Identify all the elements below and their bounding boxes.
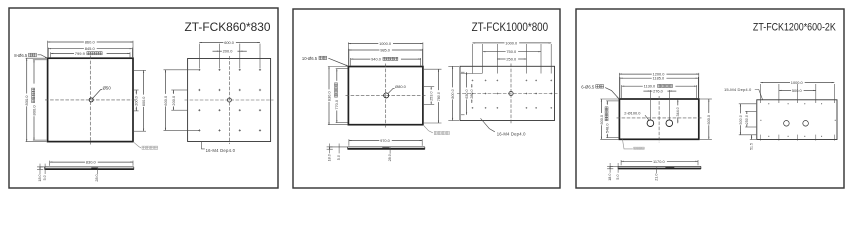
panel 3 dim 1170.0 bottom (620, 160, 622, 165)
panel 2 back dim 750.0 (483, 49, 541, 54)
panel 3 back dim 1000.0 (759, 84, 761, 103)
svg-text:28.0: 28.0 (95, 174, 99, 181)
svg-text:250.0: 250.0 (506, 56, 517, 61)
svg-text:800.0: 800.0 (451, 89, 455, 98)
svg-text:51.5: 51.5 (750, 143, 754, 150)
panel 2 side dim 28.0 (389, 149, 391, 153)
panel 3 back dim 500.0 left (739, 103, 756, 105)
svg-text:250.0: 250.0 (745, 115, 749, 124)
svg-text:830.0: 830.0 (326, 90, 331, 101)
panel 2 wire outlet label (423, 125, 433, 133)
panel 2 dim 780.0 right (437, 69, 441, 123)
svg-text:860.0: 860.0 (85, 39, 96, 44)
panel 2 dim 940.0 luminous (350, 58, 352, 66)
panel 2 back view hole dots (472, 80, 552, 109)
panel 2 side view strip (348, 146, 425, 148)
panel 1 back view M4 hole grid (198, 69, 261, 132)
panel 1 back view center circle (227, 98, 231, 102)
panel 3 front view outline 1200x600 (619, 99, 698, 139)
svg-text:10-Ø6.5: 10-Ø6.5 (302, 56, 318, 61)
svg-text:344.0: 344.0 (676, 107, 680, 116)
panel 2 back corner ext line (461, 73, 482, 75)
panel 2 border frame (293, 9, 560, 188)
panel 3 back dim 250.0 left (745, 110, 756, 112)
panel 1 side view wire bump (91, 168, 98, 170)
svg-text:8-Ø6.5: 8-Ø6.5 (14, 53, 28, 58)
panel 2 side dim 5.0 (338, 144, 340, 154)
svg-text:Ø50: Ø50 (103, 85, 112, 90)
svg-text:500.0: 500.0 (792, 88, 803, 93)
panel 2 back dim 630.0 inner (461, 71, 465, 73)
panel 3 front view centerlines (617, 117, 702, 119)
panel 1 dim 800.0 luminous left (33, 59, 47, 61)
panel 2 dim 253.0 right (430, 87, 434, 105)
svg-text:5.0: 5.0 (43, 175, 47, 180)
panel 2 front view outline 1000x830 (348, 67, 423, 125)
panel 3 dim 600.0 right (700, 98, 712, 100)
panel 1 back dim 200.0 left (171, 89, 187, 91)
panel 1 back view outline (188, 59, 271, 142)
svg-text:1000.0: 1000.0 (505, 40, 518, 45)
panel 1 dim 799.9 luminous (50, 52, 52, 57)
svg-text:800.0: 800.0 (31, 105, 36, 116)
panel 1 dim 860.0 (47, 41, 49, 57)
svg-text:830.0: 830.0 (86, 160, 97, 165)
panel 2 side view wire bump (382, 148, 389, 150)
panel 2 back dim 280.0 inner (470, 84, 474, 103)
panel 1 dim 600.0 right (142, 70, 146, 131)
svg-text:600.0: 600.0 (707, 115, 711, 125)
panel 2 back view centerlines (457, 93, 558, 95)
panel 1 dim 845.0 (47, 48, 49, 58)
panel 3 back dim 500.0 (779, 88, 816, 93)
panel 1 dim 830.0 left (26, 57, 47, 59)
panel 3 dim 548.0 luminous left (606, 100, 618, 102)
panel 1 side dim 18.0 (39, 164, 41, 174)
svg-text:28.0: 28.0 (388, 154, 392, 161)
panel 3 dim 276.0 (649, 90, 651, 120)
svg-text:600.0: 600.0 (600, 115, 604, 125)
panel 3 side view lip line (610, 165, 618, 167)
panel 1 center hole circle (89, 98, 93, 102)
panel 3 lamp circles 2-D100 (647, 120, 654, 127)
panel 3 back view lamp circles (784, 121, 790, 127)
panel 3 border frame (576, 9, 844, 188)
svg-text:200.0: 200.0 (171, 95, 176, 106)
panel 3 dim 600.0 left (600, 98, 618, 100)
svg-text:5.0: 5.0 (616, 174, 620, 179)
panel 1 right ext ticks (134, 69, 146, 71)
panel 2 label 16-M4 Dep4.0 (481, 118, 495, 132)
panel 3 back view outline (757, 100, 837, 140)
panel 2 dim 970.0 bottom (348, 139, 350, 146)
panel 1 side view lip line (40, 166, 45, 168)
svg-text:200.0: 200.0 (135, 96, 139, 106)
panel 2 dim 770.0 luminous left (336, 68, 348, 70)
svg-text:18.0: 18.0 (38, 174, 42, 181)
svg-text:600.0: 600.0 (224, 40, 235, 45)
svg-text:548.0: 548.0 (606, 124, 610, 134)
panel 1 back dim 600.0 left (164, 69, 200, 71)
svg-text:940.0: 940.0 (371, 57, 382, 62)
panel 1 dim 830.0 bottom (49, 161, 51, 166)
panel 3 label 15-M4 Dep4.0 (755, 90, 763, 100)
panel 3 side view wire bump (665, 167, 674, 169)
panel 2 hole label leader (388, 88, 395, 93)
svg-text:5.0: 5.0 (337, 155, 341, 160)
svg-text:15-M4 Dep4.0: 15-M4 Dep4.0 (724, 87, 752, 92)
svg-text:21.0: 21.0 (654, 174, 658, 181)
svg-text:6-Ø6.5: 6-Ø6.5 (581, 84, 595, 89)
panel 3 back view hole ticks bottom (760, 135, 834, 141)
svg-text:ZT-FCK1200*600-2K: ZT-FCK1200*600-2K (753, 22, 836, 34)
panel 2 dim 985.0 (348, 49, 350, 66)
svg-text:600.0: 600.0 (142, 97, 146, 107)
svg-text:200.0: 200.0 (223, 49, 234, 54)
svg-text:630.0: 630.0 (465, 89, 469, 98)
panel 1 back view centerlines (185, 99, 274, 101)
panel 2 front view centerlines (346, 95, 426, 97)
panel 3 dim 344.0 inner (676, 100, 680, 124)
svg-text:845.0: 845.0 (85, 46, 96, 51)
svg-text:ZT-FCK1000*800: ZT-FCK1000*800 (472, 20, 549, 34)
panel 3 side dim 21.0 (656, 169, 658, 173)
panel 1 dim 200.0 right (135, 90, 139, 111)
svg-text:770.0: 770.0 (334, 99, 339, 110)
svg-text:780.0: 780.0 (437, 92, 441, 101)
svg-text:18.0: 18.0 (608, 174, 612, 181)
panel 2 side view lip line (330, 146, 348, 148)
panel 3 dim 1185.0 (619, 77, 621, 98)
panel 1 front view outline 860x830 (48, 58, 133, 141)
svg-text:253.0: 253.0 (430, 91, 434, 100)
panel 3 side dim 18.0 (609, 163, 611, 173)
panel 2 dim 830.0 left (328, 66, 348, 68)
panel 2 back view outline (460, 66, 555, 120)
svg-text:985.0: 985.0 (380, 47, 391, 52)
svg-text:18.0: 18.0 (327, 154, 331, 161)
panel 2 back dim 800.0 left (448, 65, 459, 67)
panel 3 side view strip (618, 165, 701, 167)
panel 2 side dim 18.0 (329, 144, 331, 154)
svg-text:16-M4 Dep4.0: 16-M4 Dep4.0 (206, 148, 236, 153)
panel 1 back dim 600.0 top (198, 44, 200, 69)
svg-text:1185.0: 1185.0 (653, 76, 665, 81)
svg-text:280.0: 280.0 (470, 89, 474, 98)
panel 2 right ext ticks (424, 68, 442, 70)
panel 3 wire outlet label (623, 140, 633, 149)
svg-text:500.0: 500.0 (739, 115, 743, 124)
panel 1 side dim 5.0 (44, 164, 46, 174)
panel 2 back dim 1000.0 (472, 44, 474, 74)
panel 1 back dim 200.0 top (213, 49, 247, 54)
panel 3 dim 1200.0 (618, 73, 620, 98)
svg-text:276.0: 276.0 (653, 89, 664, 94)
svg-text:830.0: 830.0 (24, 95, 29, 106)
svg-text:1000.0: 1000.0 (379, 41, 392, 46)
svg-text:Ø80.0: Ø80.0 (395, 84, 407, 89)
panel 3 dim 1130.0 luminous (621, 85, 623, 98)
panel 1 side dim 28.0 (96, 170, 98, 175)
panel 3 side dim 5.0 (617, 163, 619, 173)
svg-text:799.9: 799.9 (75, 51, 86, 56)
panel 2 back dim 250.0 (497, 56, 526, 61)
svg-text:970.0: 970.0 (380, 138, 391, 143)
svg-text:2-Ø100.0: 2-Ø100.0 (624, 110, 641, 115)
panel 3 back dim 51.5 left (750, 139, 756, 141)
panel 2 dim 1000.0 (347, 42, 349, 65)
panel 1 hole label leader (93, 90, 103, 99)
panel 1 front view centerlines (45, 99, 136, 101)
svg-text:ZT-FCK860*830: ZT-FCK860*830 (185, 20, 271, 34)
svg-text:750.0: 750.0 (506, 49, 517, 54)
panel 1 side view strip (45, 166, 134, 168)
panel 1 wire outlet label (133, 142, 141, 148)
panel 1 border frame (9, 8, 278, 188)
svg-text:1000.0: 1000.0 (791, 80, 804, 85)
panel 2 back view center circle (509, 91, 513, 95)
panel 3 back view hole dots (760, 103, 835, 137)
panel 2 center hole circle (384, 93, 389, 98)
panel 1 label 16-M4 Dep4.0 (202, 142, 205, 149)
svg-text:600.0: 600.0 (163, 95, 168, 106)
svg-text:16-M4 Dep4.0: 16-M4 Dep4.0 (497, 131, 526, 136)
svg-text:1170.0: 1170.0 (653, 159, 665, 164)
